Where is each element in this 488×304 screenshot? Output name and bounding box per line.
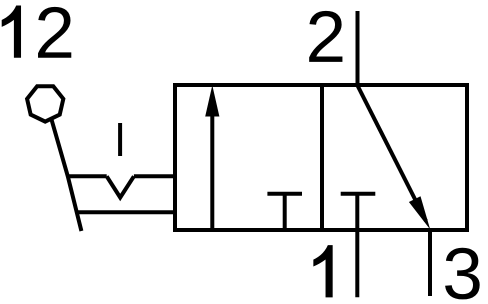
flow path 2-3 diagonal shaft (right box) bbox=[358, 86, 427, 222]
valve body outer box bbox=[175, 85, 467, 230]
flow arrow 1-2 shaft (left box) bbox=[210, 112, 214, 230]
port label 3 bbox=[445, 248, 480, 300]
detent notch V bbox=[107, 176, 134, 197]
flow path 2-3 arrowhead bbox=[409, 196, 430, 229]
port 3 line bbox=[428, 230, 432, 296]
detent upper plate left segment bbox=[67, 174, 107, 178]
flow arrow 1-2 head bbox=[205, 85, 219, 116]
port label 1 bbox=[313, 245, 332, 297]
blocked port T stem (left box) bbox=[283, 194, 287, 230]
detent upper plate right segment bbox=[134, 174, 175, 178]
port 2 line bbox=[356, 11, 360, 85]
blocked port T bar (right box) bbox=[341, 192, 376, 196]
pilot signal label 12 bbox=[2, 6, 72, 58]
port 1 line with T stem bbox=[355, 194, 359, 297]
detent lower plate bbox=[76, 210, 175, 214]
lever knob bbox=[27, 86, 63, 121]
valve box divider bbox=[320, 85, 324, 230]
detent pin bbox=[118, 123, 122, 156]
blocked port T bar (left box) bbox=[267, 192, 302, 196]
port label 2 bbox=[309, 11, 342, 62]
lever arm bbox=[52, 120, 82, 232]
